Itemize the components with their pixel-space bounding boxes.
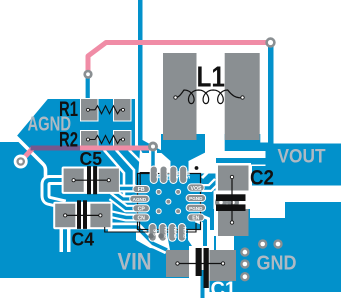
svg-text:PGND: PGND [189, 206, 203, 211]
wire island thin clearance lines left of IC [104, 150, 145, 196]
wire purple segment of pink trace over AGND pour [31, 146, 81, 151]
inductor L1 pads [163, 53, 260, 140]
pin SS [149, 224, 160, 242]
pin CP [133, 205, 150, 213]
pin SW a [170, 166, 182, 184]
wire R1 left pad to R2 left pad [86, 118, 90, 133]
svg-text:C1: C1 [211, 278, 237, 298]
svg-text:PGND: PGND [189, 196, 203, 201]
label R2 [59, 129, 78, 152]
resistor R1 pads [80, 98, 132, 122]
wire black net line CN to C4 and EN [105, 220, 196, 232]
wire CN trace from C4 right pad to CN pin [110, 214, 138, 218]
wire trace from C4 right pad going right then down to C1 left pad [108, 227, 167, 250]
wire trace from via to PG pin [149, 150, 157, 168]
pin PG [150, 166, 162, 184]
svg-text:PVIN: PVIN [164, 226, 169, 237]
node VIN copper pour (main left pour + C5/C4 island + IC area + VIN strip) [0, 142, 266, 278]
via D center (pink junction near IC) [148, 142, 158, 152]
label R1 [59, 98, 78, 121]
wire AGND trace to AGND pin [112, 191, 132, 199]
label C5 [80, 148, 103, 169]
pin PVIN a [159, 224, 168, 242]
capacitor C1 pads [166, 246, 236, 292]
white area above IC (clears big block) [138, 150, 217, 252]
pin PVIN b [169, 224, 178, 242]
via C left on main pour [14, 155, 28, 169]
wire pink trace bottom (via C to via D) [21, 148, 152, 161]
capacitor C1 symbol [176, 248, 225, 288]
pin PGND b [186, 204, 206, 211]
pin SW b [180, 166, 192, 184]
wire AGND via trace (top) to R1 left pad [86, 74, 90, 102]
capacitor C2 pads [214, 163, 252, 236]
svg-text:L1: L1 [197, 62, 226, 94]
pin DEF [160, 166, 172, 184]
op-amp U1 IC outline [138, 174, 201, 230]
pin PVIN c [178, 224, 187, 242]
svg-text:VIN: VIN [118, 249, 152, 276]
svg-text:EN: EN [192, 216, 199, 222]
svg-text:VOUT: VOUT [278, 147, 326, 168]
pin 1 marker dot [195, 166, 199, 170]
svg-text:C4: C4 [72, 229, 95, 250]
svg-text:PVIN: PVIN [183, 226, 188, 237]
wire channel boundary between AGND arrow and main pour [9, 130, 46, 178]
label VOUT [278, 147, 326, 168]
svg-text:C2: C2 [250, 167, 274, 190]
wire C5 left pad trace to C4 left pad [46, 180, 66, 205]
resistor R1 symbol [87, 106, 126, 114]
wire SW vertical trace from top edge [138, 0, 163, 153]
wire EN trace bottom segment over white [201, 270, 205, 298]
svg-text:AGND: AGND [28, 114, 72, 136]
node SW copper (under L1 left pad, funnel to SW pins) [161, 134, 205, 184]
inductor L1 symbol [174, 90, 244, 104]
wire CP trace from C5 to CP pin [111, 197, 138, 209]
svg-text:FB: FB [138, 187, 145, 193]
resistor R2 pads [80, 130, 132, 149]
pin EN [188, 214, 205, 222]
capacitor C2 symbol [215, 175, 246, 224]
svg-text:CN: CN [137, 216, 145, 222]
wire VOS trace to C2 top pad [202, 169, 217, 188]
label L1 [197, 62, 226, 94]
node VOUT copper pour (right band) [252, 144, 341, 186]
wire pink over R1/R2 pads row (re-draw pink over pads) [80, 146, 153, 151]
svg-text:C5: C5 [80, 148, 103, 169]
wire pink trace top (via A to via B) [88, 43, 271, 75]
label VIN [118, 249, 152, 276]
capacitor C4 pads [53, 202, 112, 230]
GND via column [240, 247, 249, 281]
capacitor C4 symbol [64, 200, 102, 229]
svg-text:CP: CP [138, 207, 146, 213]
thermal vias inside U1 [156, 189, 181, 214]
wire FB trace from C5 right pad to FB pin [112, 185, 136, 193]
node VOUT copper under L1 right pad [225, 134, 268, 151]
pin VOS [188, 184, 205, 192]
node GND copper pour (bottom right) [205, 202, 341, 292]
wire black net line FB stub [140, 173, 150, 187]
wire R1 right pad to R2 right pad [121, 118, 126, 133]
white wedge above VIN label and C1 feed channel [136, 230, 170, 250]
wire EN trace channel going down between C1 and C2 [197, 218, 205, 298]
svg-text:GND: GND [257, 253, 297, 275]
pin CN [133, 214, 150, 222]
label C1 [211, 278, 237, 298]
wire VOUT trace from via to VOUT pour [268, 42, 274, 146]
label C4 [72, 229, 95, 250]
pin PGND a [186, 195, 206, 202]
node AGND copper pour (arrow region behind R1/R2) [17, 99, 135, 160]
svg-text:AGND: AGND [133, 197, 147, 202]
via A top left (pink/AGND junction) [83, 70, 92, 79]
label AGND [28, 114, 72, 136]
label GND [257, 253, 297, 275]
capacitor C5 symbol [72, 166, 110, 194]
resistor R2 symbol [87, 136, 126, 144]
svg-text:VOS: VOS [191, 186, 202, 192]
capacitor C5 pads [62, 167, 120, 194]
label C2 [250, 167, 274, 190]
pin FB [133, 186, 150, 194]
via pair small (VIN wedge) [148, 233, 163, 238]
svg-text:SW: SW [186, 170, 192, 178]
svg-text:PVIN: PVIN [173, 226, 178, 237]
pin AGND [130, 195, 150, 202]
GND via pair [258, 239, 283, 248]
wire C4 left pad trace channel going down [60, 226, 71, 252]
via B top right (pink/VOUT junction) [265, 37, 275, 47]
